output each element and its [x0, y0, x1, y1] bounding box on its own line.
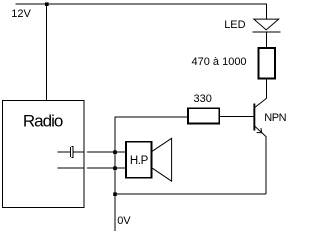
wire lower to speaker: [87, 167, 126, 169]
wire radio upper output: [58, 151, 71, 153]
LED D1 anode wire: [265, 4, 267, 19]
speaker HP box: [126, 142, 151, 178]
node 0V rail junction: [113, 192, 117, 196]
transistor Q1 base bar: [253, 104, 255, 131]
svg-text:NPN: NPN: [264, 112, 286, 124]
svg-text:470 à 1000: 470 à 1000: [192, 56, 247, 68]
transistor Q1 emitter arrow: [257, 128, 262, 133]
wire 12V top rail: [16, 3, 267, 5]
transistor Q1 emitter slant: [254, 126, 265, 136]
capacitor C1 plate right bracket: [71, 147, 73, 158]
wire radio lower output: [58, 167, 84, 169]
wire 0V vertical: [114, 117, 116, 231]
LED D1 cathode bar: [252, 31, 280, 33]
svg-text:12V: 12V: [11, 8, 31, 20]
capacitor C1 plate left: [70, 147, 72, 157]
node junction 12V/radio: [45, 2, 49, 6]
wire bottom rail: [115, 193, 266, 195]
svg-text:LED: LED: [224, 19, 245, 31]
resistor R1 330: [188, 108, 219, 123]
svg-text:H.P: H.P: [130, 155, 149, 167]
resistor R2 470-1000: [258, 48, 275, 78]
wire emitter vertical: [265, 136, 267, 194]
wire upper to speaker: [87, 151, 126, 153]
wire capacitor to box edge: [73, 151, 83, 153]
wire base run left: [115, 116, 188, 118]
svg-text:Radio: Radio: [23, 111, 63, 130]
wire LED to resistor: [265, 32, 267, 48]
LED D1 triangle: [254, 19, 279, 30]
wire collector vertical: [265, 80, 267, 99]
node upper wire / 0V line: [113, 150, 117, 154]
svg-text:330: 330: [194, 93, 212, 105]
radio box: [3, 101, 85, 208]
speaker horn: [152, 138, 171, 181]
wire radio supply drop: [46, 4, 48, 100]
wire resistor to base: [220, 115, 254, 117]
transistor Q1 collector slant: [255, 98, 267, 107]
svg-text:0V: 0V: [117, 215, 131, 227]
node lower wire / 0V line: [113, 166, 117, 170]
